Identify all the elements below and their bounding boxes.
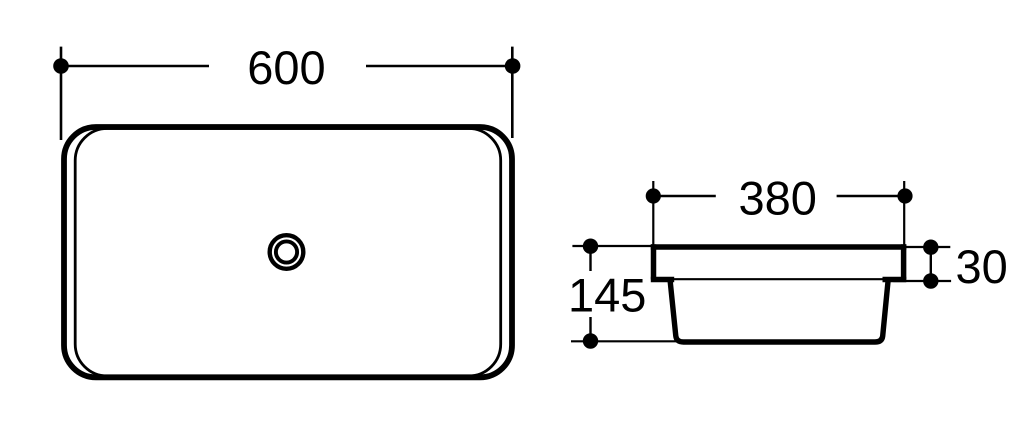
drain outer circle: [270, 235, 304, 269]
bowl body outline (left slant, bottom, right slant): [670, 280, 888, 343]
drain inner circle: [276, 241, 297, 262]
basin interior edge line across rim bottom: [674, 278, 883, 280]
dimension 380: right dimension line segment: [837, 195, 905, 198]
dimension 600: left dimension line segment: [61, 65, 209, 68]
dimension 145: bottom extension line to bowl base: [571, 340, 678, 342]
svg-text:380: 380: [738, 171, 816, 224]
svg-text:145: 145: [568, 269, 646, 322]
dimension 600: right terminator dot: [505, 58, 521, 74]
rim top edge (side view): [651, 244, 907, 250]
rim bottom right step: [883, 277, 907, 283]
dimension 380: left terminator dot: [646, 188, 661, 203]
basin outer outline (top view): [64, 127, 512, 377]
rim right edge (side view): [901, 244, 907, 279]
dimension 145: upper vertical line segment: [589, 246, 591, 271]
dimension 380: left dimension line segment: [653, 195, 716, 198]
dimension 30: bottom terminator dot: [923, 273, 938, 288]
dimension 600: right dimension line segment: [366, 65, 513, 68]
dimension 30: top terminator dot: [923, 240, 938, 255]
dimension 380: right terminator dot: [897, 188, 912, 203]
dimension 145: lower vertical line segment: [589, 317, 591, 341]
dimension 380: left extension line: [652, 181, 654, 246]
dimension 30: bottom extension line from rim base: [893, 280, 951, 282]
dimension 145: top extension line to rim: [572, 245, 651, 247]
rim bottom left step: [651, 277, 674, 283]
svg-text:30: 30: [955, 240, 1007, 293]
dimension 145: bottom terminator dot: [583, 333, 598, 348]
dimension 600: left terminator dot: [53, 58, 69, 74]
dimension 380: right extension line: [903, 181, 905, 246]
dimension 600: left extension line: [60, 47, 63, 140]
dimension 30: vertical line between dots: [930, 247, 932, 281]
rim left edge (side view): [651, 244, 657, 279]
dimension 600: right extension line: [511, 47, 514, 138]
basin inner rim line (top view): [75, 129, 501, 377]
svg-text:600: 600: [247, 41, 325, 94]
dimension 30: top extension line from rim: [903, 246, 950, 248]
dimension 145: top terminator dot: [583, 239, 598, 254]
